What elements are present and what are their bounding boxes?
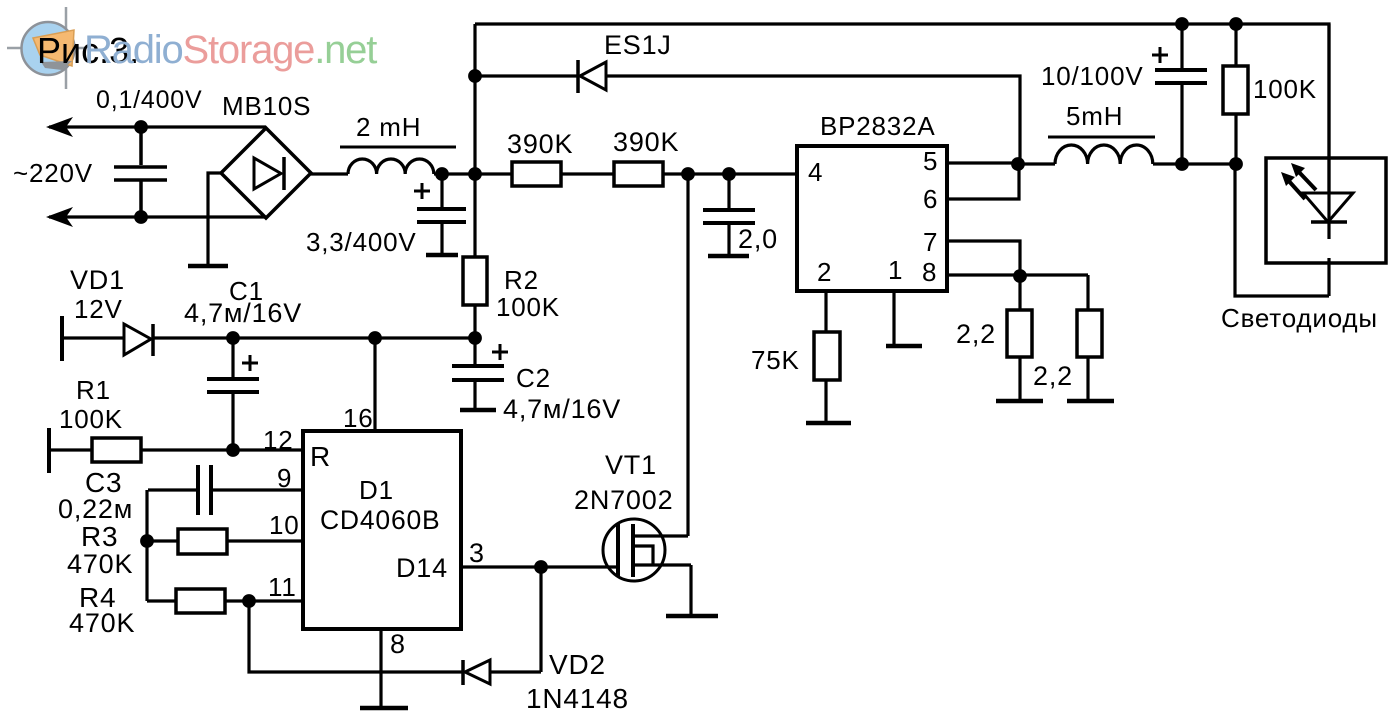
diode VD1 — [124, 324, 153, 356]
node inductor output junction — [435, 167, 449, 181]
node pin3 junction — [534, 560, 548, 574]
svg-text:VD2: VD2 — [549, 649, 606, 680]
svg-text:R3: R3 — [81, 521, 118, 552]
logo watermark circle — [7, 7, 84, 89]
svg-text:R2: R2 — [504, 265, 539, 295]
node pin5 junction — [1011, 157, 1025, 171]
svg-text:5mH: 5mH — [1066, 101, 1123, 131]
capacitor 3,3/400V — [414, 174, 466, 255]
svg-text:8: 8 — [390, 629, 406, 659]
wire LED return — [1235, 164, 1329, 296]
svg-text:0,22м: 0,22м — [58, 494, 133, 524]
node 2,0 cap junction — [722, 167, 736, 181]
resistor 390K second — [614, 162, 663, 186]
node AC top junction — [134, 120, 148, 134]
wire pin8 stub — [379, 629, 382, 707]
node R4 junction — [242, 594, 256, 608]
LED light arrows — [1281, 163, 1316, 199]
node R2 bottom junction — [468, 331, 482, 345]
svg-text:BP2832A: BP2832A — [820, 111, 935, 141]
node pin8 junction — [1013, 269, 1027, 283]
wire top rail — [475, 24, 1329, 193]
node drain riser junction — [681, 167, 695, 181]
capacitor 0,1/400V — [114, 127, 167, 217]
wire 12V rail to R2 node — [153, 336, 475, 339]
LED box Светодиоды — [1266, 158, 1386, 263]
svg-text:R1: R1 — [76, 375, 111, 405]
node 5mH line return junction — [1229, 157, 1243, 171]
wire LED cathode lead — [1327, 258, 1330, 296]
terminal R1 left bar — [47, 428, 51, 473]
capacitor 2,0 — [703, 174, 755, 256]
ground 2,2 second bar — [1067, 399, 1114, 404]
bridge rectifier MB10S — [221, 128, 311, 218]
resistor 2,2 second — [1077, 275, 1102, 400]
svg-text:1N4148: 1N4148 — [526, 683, 629, 714]
svg-text:75K: 75K — [751, 345, 800, 375]
svg-text:3,3/400V: 3,3/400V — [306, 227, 417, 257]
resistor 2,2 first — [1007, 276, 1032, 400]
wire left vertical C3-R3-R4 — [145, 490, 148, 601]
svg-text:ES1J: ES1J — [604, 30, 672, 60]
resistor 100K right — [1223, 24, 1248, 164]
ground bridge minus bar — [188, 264, 228, 269]
wire pin6 stub — [947, 164, 1019, 199]
capacitor C3 — [148, 465, 303, 515]
node 5mH line cap junction — [1175, 157, 1189, 171]
svg-text:6: 6 — [923, 184, 938, 214]
diode VD2 1N4148 — [463, 660, 541, 685]
svg-text:2,2: 2,2 — [956, 319, 996, 349]
node top rail 100K junction — [1229, 17, 1243, 31]
svg-text:12V: 12V — [74, 294, 123, 324]
wire 390K to pin4 — [663, 172, 797, 175]
svg-text:2: 2 — [817, 257, 832, 287]
wire ES1J line left — [475, 74, 578, 77]
wire AC bottom line — [49, 215, 266, 218]
svg-text:4: 4 — [808, 157, 823, 187]
wire node to riser — [442, 172, 512, 175]
wire LED anode lead — [1327, 24, 1330, 239]
ground 75K bar — [806, 421, 851, 426]
svg-text:2,2: 2,2 — [1033, 361, 1073, 391]
wire pin3 D14 output — [461, 565, 618, 568]
svg-text:8: 8 — [922, 257, 937, 287]
svg-text:10/100V: 10/100V — [1041, 61, 1143, 91]
resistor R2 — [463, 174, 487, 338]
svg-text:100K: 100K — [1253, 74, 1317, 104]
node top rail cap junction — [1175, 17, 1189, 31]
svg-text:10: 10 — [269, 510, 300, 540]
IC U2 BP2832A box — [797, 146, 947, 291]
ground pin8 bar — [360, 706, 408, 711]
wire drain riser — [686, 174, 689, 536]
svg-text:11: 11 — [268, 572, 297, 602]
svg-text:~220V: ~220V — [13, 158, 93, 188]
resistor R1 — [92, 438, 141, 462]
svg-text:VT1: VT1 — [605, 450, 657, 480]
svg-text:12: 12 — [263, 425, 294, 455]
svg-text:390K: 390K — [507, 129, 573, 159]
node R1 line junction — [226, 443, 240, 457]
node C1 top junction — [226, 331, 240, 345]
capacitor C2 — [452, 338, 508, 410]
svg-text:470K: 470K — [69, 608, 135, 638]
arrow AC bottom — [46, 207, 73, 227]
wire pin1 lead — [892, 291, 895, 345]
svg-text:5: 5 — [923, 146, 938, 176]
diode VD ES1J — [578, 60, 606, 93]
svg-text:9: 9 — [277, 463, 292, 493]
LED diode symbol — [1303, 193, 1353, 222]
svg-text:Светодиоды: Светодиоды — [1221, 303, 1378, 333]
svg-text:3: 3 — [469, 538, 485, 568]
wire VD2 riser — [539, 567, 542, 672]
svg-text:R: R — [310, 441, 331, 472]
svg-text:16: 16 — [343, 403, 374, 433]
capacitor C1 — [207, 338, 259, 450]
terminal 12V rail left bar — [60, 316, 64, 361]
node pin16 riser junction — [368, 331, 382, 345]
wire R1 line — [49, 448, 303, 451]
wire bridge minus lead — [208, 173, 221, 265]
transistor Q VT1 2N7002 — [603, 519, 691, 581]
wire AC top line — [49, 125, 266, 128]
wire pin5 stub — [947, 161, 1018, 164]
svg-text:0,1/400V: 0,1/400V — [96, 86, 203, 114]
node AC bottom junction — [134, 210, 148, 224]
resistor R4 — [147, 589, 303, 613]
resistor 75K — [814, 332, 840, 380]
svg-text:470K: 470K — [67, 549, 133, 579]
svg-text:MB10S: MB10S — [222, 91, 311, 121]
svg-text:100K: 100K — [496, 292, 560, 322]
svg-text:C2: C2 — [516, 363, 551, 393]
wire source lead — [689, 565, 692, 615]
svg-text:100K: 100K — [59, 404, 123, 434]
ground pin1 bar — [886, 344, 922, 349]
wire pin16 riser — [373, 338, 376, 431]
wire pin2 lead — [824, 291, 827, 332]
wire pin7 stub — [947, 241, 1020, 276]
svg-text:D14: D14 — [396, 553, 448, 583]
capacitor 10/100V — [1152, 24, 1207, 164]
ground 2,2 first bar — [996, 399, 1043, 404]
wire VD2 line left — [249, 601, 462, 672]
wire pin8 stub — [947, 273, 1088, 276]
arrow AC top — [46, 117, 73, 137]
node riser junction — [468, 167, 482, 181]
svg-text:2N7002: 2N7002 — [574, 485, 673, 515]
svg-text:RadioStorage.net: RadioStorage.net — [84, 28, 377, 72]
svg-text:2,0: 2,0 — [738, 224, 778, 254]
wire 12V rail left — [62, 336, 124, 339]
inductor L2 5mH — [1018, 137, 1235, 164]
svg-text:2 mH: 2 mH — [356, 112, 421, 142]
wire ES1J line right — [606, 76, 1020, 164]
svg-text:1: 1 — [888, 255, 903, 285]
svg-text:7: 7 — [923, 227, 938, 257]
node ES1J line junction — [468, 69, 482, 83]
inductor L1 2 mH — [311, 147, 456, 174]
IC U D1 CD4060B box — [303, 431, 461, 629]
svg-text:4,7м/16V: 4,7м/16V — [184, 298, 302, 328]
wire riser top (rail to main line) — [473, 24, 476, 174]
svg-text:390K: 390K — [613, 127, 679, 157]
svg-text:D1: D1 — [359, 475, 394, 505]
ground VT1 source bar — [666, 614, 718, 619]
svg-text:4,7м/16V: 4,7м/16V — [503, 394, 621, 424]
resistor R3 — [147, 529, 303, 554]
resistor 390K first — [512, 162, 561, 186]
node R3 junction — [140, 534, 154, 548]
svg-text:CD4060B: CD4060B — [320, 505, 441, 535]
wire between 390K — [561, 172, 614, 175]
svg-text:VD1: VD1 — [70, 265, 125, 295]
wire 75K bottom lead — [824, 380, 827, 422]
